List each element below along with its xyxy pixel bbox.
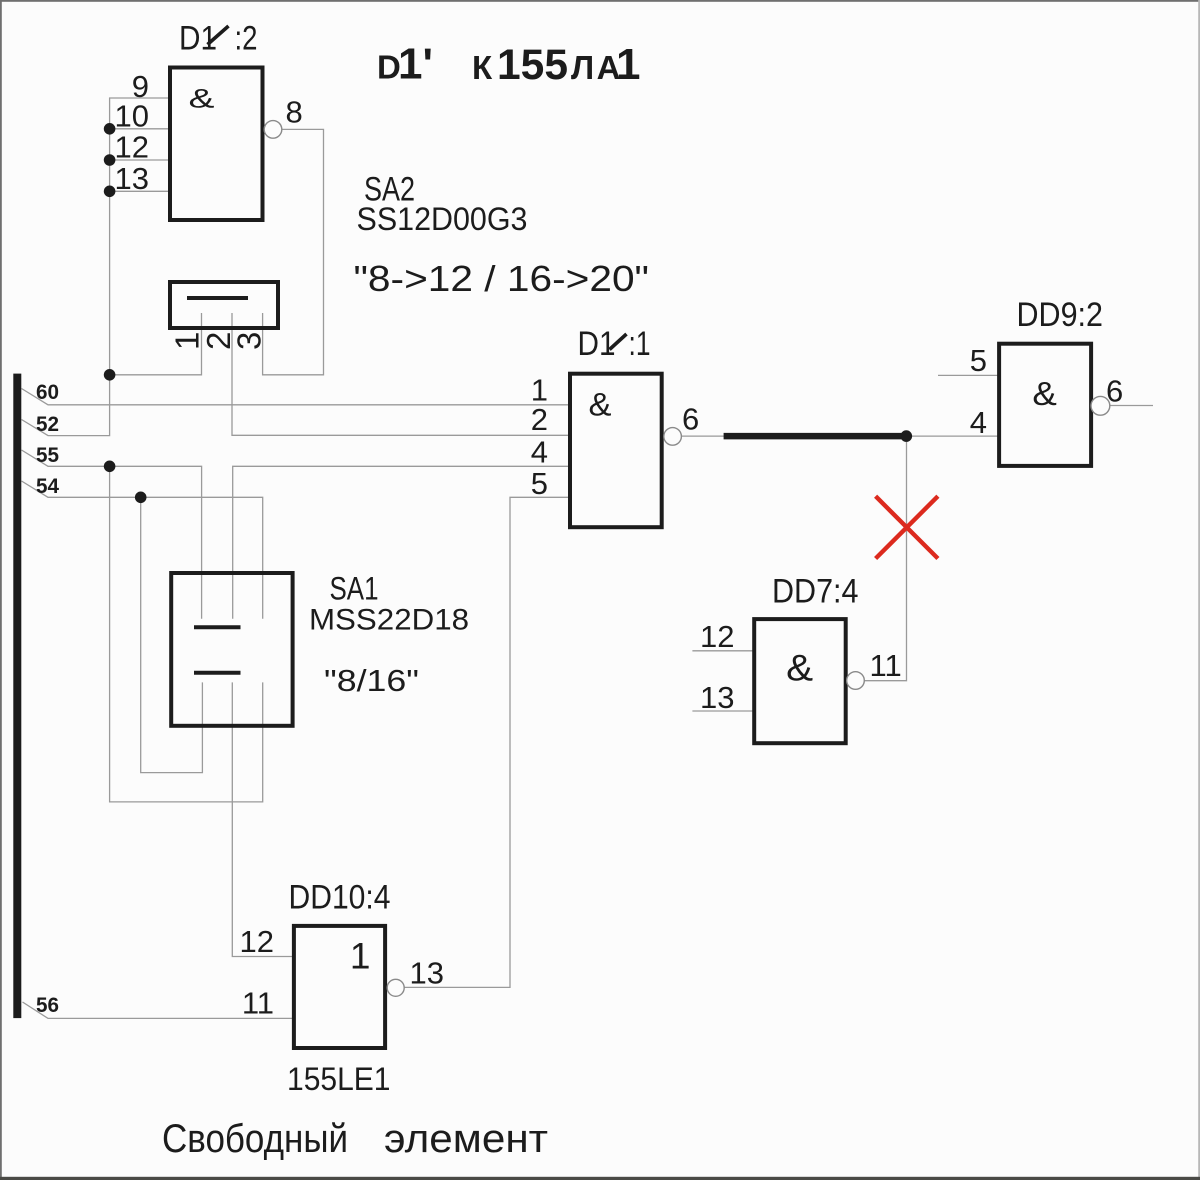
svg-text:56: 56	[36, 994, 59, 1017]
svg-text:&: &	[189, 84, 215, 114]
svg-text:&: &	[1032, 375, 1057, 412]
svg-text:1: 1	[350, 936, 371, 977]
svg-text:13: 13	[410, 956, 444, 991]
svg-text:5: 5	[531, 466, 548, 501]
svg-text:&: &	[589, 387, 612, 423]
svg-text:4: 4	[531, 434, 548, 469]
svg-text:D1: D1	[179, 19, 217, 57]
svg-text::2: :2	[235, 19, 258, 57]
svg-text:D1: D1	[578, 325, 616, 363]
svg-text:54: 54	[36, 475, 59, 498]
svg-text:12: 12	[700, 619, 734, 654]
svg-text:8: 8	[286, 95, 303, 130]
svg-text:12: 12	[240, 924, 274, 959]
svg-text:MSS22D18: MSS22D18	[309, 604, 469, 637]
svg-text:10: 10	[115, 99, 149, 134]
svg-text:55: 55	[36, 444, 59, 467]
svg-text:1: 1	[616, 40, 640, 89]
svg-text:1': 1'	[398, 40, 433, 89]
svg-text:11: 11	[870, 648, 902, 683]
svg-text:DD9:2: DD9:2	[1017, 296, 1104, 334]
svg-text::1: :1	[629, 325, 651, 363]
svg-text:60: 60	[36, 381, 59, 404]
svg-text:DD7:4: DD7:4	[772, 573, 859, 611]
svg-text:"8/16": "8/16"	[324, 663, 419, 698]
svg-text:13: 13	[115, 161, 149, 196]
svg-text:4: 4	[970, 405, 987, 440]
svg-text:SA1: SA1	[330, 571, 379, 607]
svg-text:11: 11	[242, 986, 274, 1021]
svg-text:5: 5	[970, 343, 987, 378]
svg-text:Свободный: Свободный	[162, 1117, 348, 1161]
svg-text:К: К	[472, 49, 493, 86]
svg-text:DD10:4: DD10:4	[289, 879, 391, 917]
svg-text:6: 6	[1106, 373, 1123, 408]
svg-text:13: 13	[700, 680, 734, 715]
svg-text:3: 3	[231, 332, 268, 350]
svg-text:"8->12 / 16->20": "8->12 / 16->20"	[354, 258, 650, 299]
svg-text:12: 12	[115, 130, 149, 165]
svg-text:52: 52	[36, 413, 59, 436]
svg-text:2: 2	[531, 402, 548, 437]
svg-text:155: 155	[497, 41, 568, 89]
svg-text:элемент: элемент	[384, 1117, 548, 1161]
svg-text:155LE1: 155LE1	[287, 1061, 391, 1097]
svg-text:&: &	[786, 648, 813, 689]
svg-text:6: 6	[682, 402, 699, 437]
svg-text:SS12D00G3: SS12D00G3	[357, 201, 528, 237]
